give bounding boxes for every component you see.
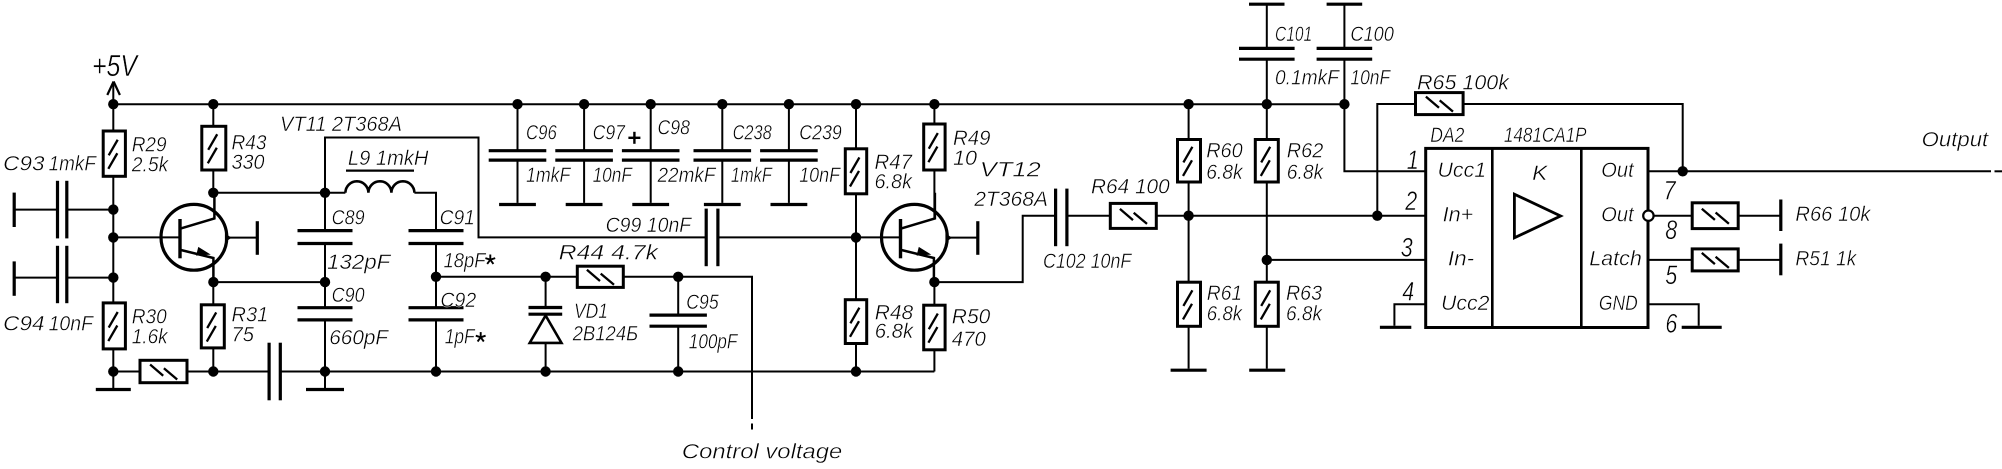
svg-text:75: 75 <box>232 322 255 346</box>
capacitor series bypass <box>268 343 271 401</box>
node R48 bottom <box>851 366 861 376</box>
node rail R60 <box>1183 99 1193 109</box>
svg-text:6.8k: 6.8k <box>1206 160 1244 184</box>
resistor R29 <box>103 131 125 176</box>
wire base VT11 <box>112 210 114 238</box>
node emitter VT11 <box>208 277 218 287</box>
svg-text:1481CA1P: 1481CA1P <box>1504 123 1587 147</box>
svg-text:R65 100k: R65 100k <box>1417 71 1510 95</box>
svg-text:0.1mkF: 0.1mkF <box>1275 65 1341 89</box>
svg-text:6.8k: 6.8k <box>1207 302 1243 326</box>
node rail C238 <box>717 99 727 109</box>
svg-text:132pF: 132pF <box>327 250 392 274</box>
svg-text:VD1: VD1 <box>574 299 608 323</box>
transistor VT12 <box>882 204 948 270</box>
node C92 bottom <box>431 366 441 376</box>
ground C90 <box>324 372 326 390</box>
node ground rail left <box>320 366 330 376</box>
svg-text:2В124Б: 2В124Б <box>572 322 638 346</box>
svg-text:1.6k: 1.6k <box>132 325 169 349</box>
svg-text:DA2: DA2 <box>1430 123 1464 147</box>
svg-text:1mkF: 1mkF <box>731 163 773 187</box>
resistor R66 <box>1692 203 1738 229</box>
resistor R51 <box>1692 249 1738 271</box>
svg-text:4: 4 <box>1402 277 1414 307</box>
node rail C98 <box>646 99 656 109</box>
wire bridge to C99 <box>325 138 706 238</box>
node R30 bottom <box>108 366 118 376</box>
svg-text:Ucc2: Ucc2 <box>1441 291 1490 315</box>
svg-text:330: 330 <box>232 150 265 174</box>
svg-text:6: 6 <box>1665 309 1678 339</box>
resistor R64 <box>1110 203 1156 228</box>
svg-text:6.8k: 6.8k <box>1286 302 1323 326</box>
wire C91 node to R44 <box>436 276 577 278</box>
wire R30 top <box>112 237 114 303</box>
wire +5V rail <box>113 103 1344 105</box>
svg-text:6.8k: 6.8k <box>875 319 915 343</box>
svg-text:R44 4.7k: R44 4.7k <box>559 241 660 265</box>
svg-text:7: 7 <box>1664 176 1677 206</box>
wire emitter to C102 <box>934 216 1055 282</box>
capacitor C92 <box>435 277 437 308</box>
svg-text:Out: Out <box>1601 202 1634 226</box>
capacitor C93 <box>13 193 16 227</box>
transistor VT11 <box>161 204 227 270</box>
wire base VT12 <box>856 236 901 238</box>
label C98 polarity plus <box>628 137 640 139</box>
svg-text:2T368A: 2T368A <box>973 187 1048 211</box>
node In+ R60 <box>1183 211 1193 221</box>
svg-text:22mkF: 22mkF <box>657 163 718 187</box>
node C95 top <box>673 272 683 282</box>
svg-text:L9 1mkH: L9 1mkH <box>348 146 429 170</box>
node rail C97 <box>579 99 589 109</box>
capacitor C101 <box>1249 3 1285 6</box>
svg-text:18pF: 18pF <box>444 249 488 273</box>
wire In+ line <box>1156 215 1425 217</box>
svg-text:C95: C95 <box>686 290 719 314</box>
svg-text:C89: C89 <box>332 206 365 230</box>
node VD1 top <box>540 272 550 282</box>
wire R44 to control <box>623 277 752 419</box>
resistor R62 <box>1255 140 1278 183</box>
wire output dash <box>1995 170 2002 172</box>
node rail C100 <box>1339 99 1349 109</box>
svg-text:470: 470 <box>952 327 986 351</box>
pin 8 inversion bubble <box>1643 211 1653 221</box>
svg-text:Latch: Latch <box>1589 247 1642 271</box>
svg-text:Ucc1: Ucc1 <box>1438 158 1487 182</box>
svg-text:1: 1 <box>1407 145 1419 175</box>
resistor R44 <box>577 266 623 287</box>
resistor R30 <box>103 303 125 349</box>
node R31 bottom <box>208 366 218 376</box>
node rail R49 <box>929 99 939 109</box>
ground C97 <box>566 203 603 206</box>
node L9 left <box>320 188 330 198</box>
wire control dash <box>751 424 753 430</box>
svg-text:C238: C238 <box>733 121 772 145</box>
wire collector row <box>213 192 345 194</box>
svg-text:VT12: VT12 <box>980 158 1041 182</box>
svg-text:8: 8 <box>1665 215 1677 245</box>
node collector VT11 <box>208 188 218 198</box>
wire In- line <box>1267 259 1426 261</box>
svg-text:10nF: 10nF <box>49 312 95 336</box>
ground C238 <box>704 203 741 206</box>
svg-text:1mkF: 1mkF <box>49 151 98 175</box>
capacitor C102 <box>1054 189 1057 247</box>
node +5V rail at R29 <box>108 99 118 109</box>
svg-text:C98: C98 <box>658 115 690 139</box>
resistor R32 bypass <box>140 360 187 382</box>
capacitor C94 <box>13 261 16 295</box>
svg-text:2: 2 <box>1405 186 1418 216</box>
svg-text:100pF: 100pF <box>689 329 739 353</box>
svg-text:C97: C97 <box>593 121 626 145</box>
resistor R63 <box>1255 282 1278 326</box>
wire pin 8 <box>1654 215 1693 217</box>
svg-text:1mkF: 1mkF <box>526 163 572 187</box>
node base VT12 <box>851 232 861 242</box>
svg-text:10nF: 10nF <box>799 163 841 187</box>
svg-text:K: K <box>1532 161 1549 185</box>
capacitor C97 <box>583 104 585 151</box>
svg-text:In-: In- <box>1448 247 1474 271</box>
svg-text:R51 1k: R51 1k <box>1795 246 1857 270</box>
svg-text:GND: GND <box>1599 291 1638 315</box>
ground pin 4 <box>1380 326 1411 329</box>
terminal R66 <box>1779 200 1782 232</box>
diode VD1 varicap <box>545 277 547 308</box>
node VD1 bottom <box>540 366 550 376</box>
node In+ R65 <box>1372 211 1382 221</box>
ground pin 6 <box>1682 326 1722 329</box>
svg-text:C102 10nF: C102 10nF <box>1043 249 1133 273</box>
capacitor C99 <box>705 209 708 267</box>
ground C239 <box>771 203 808 206</box>
svg-text:C100: C100 <box>1350 22 1394 46</box>
svg-text:Out: Out <box>1601 158 1634 182</box>
svg-text:C90: C90 <box>332 283 365 307</box>
node output <box>1678 166 1688 176</box>
svg-text:C91: C91 <box>440 206 475 230</box>
resistor R49 <box>924 124 945 170</box>
svg-text:2.5k: 2.5k <box>131 153 170 177</box>
wire bottom left <box>113 371 140 373</box>
svg-text:C99 10nF: C99 10nF <box>606 213 693 237</box>
node C95 bottom <box>673 366 683 376</box>
inductor L9 <box>345 181 414 192</box>
svg-text:5: 5 <box>1665 260 1678 290</box>
svg-text:10nF: 10nF <box>1350 65 1391 89</box>
capacitor C95 <box>677 277 679 315</box>
resistor R60 <box>1178 140 1201 183</box>
ground R61 <box>1171 369 1207 372</box>
wire Ucc2 pin 4 <box>1394 304 1425 326</box>
node base VT11 <box>108 232 118 242</box>
svg-text:C239: C239 <box>799 121 842 145</box>
svg-text:+5V: +5V <box>92 48 140 83</box>
node rail R47 <box>851 99 861 109</box>
svg-text:Output: Output <box>1922 128 1990 152</box>
wire Ucc1 pin 1 <box>1344 104 1425 171</box>
ground left <box>112 372 114 390</box>
svg-text:1pF: 1pF <box>445 325 476 349</box>
ground C96 <box>499 203 536 206</box>
wire emitter to C90 node <box>213 281 325 283</box>
resistor R47 <box>845 149 866 194</box>
svg-text:10: 10 <box>953 146 977 170</box>
svg-text:C101: C101 <box>1275 22 1312 46</box>
svg-text:R50: R50 <box>952 305 991 329</box>
svg-text:6.8k: 6.8k <box>1287 160 1325 184</box>
svg-text:C94: C94 <box>3 312 44 336</box>
capacitor C96 <box>517 104 519 151</box>
terminal R51 <box>1779 244 1782 276</box>
resistor R61 <box>1178 282 1201 326</box>
wire to series capacitor <box>213 371 269 373</box>
node +5V rail at R43 <box>208 99 218 109</box>
ground C98 <box>632 203 669 206</box>
wire to R31 node <box>187 371 213 373</box>
wire GND pin 6 <box>1648 304 1699 326</box>
svg-text:In+: In+ <box>1443 202 1474 226</box>
svg-text:6.8k: 6.8k <box>875 170 914 194</box>
capacitor C91 <box>409 229 464 232</box>
node C94 <box>108 272 118 282</box>
svg-text:R64 100: R64 100 <box>1091 175 1170 199</box>
node rail R62 <box>1262 99 1272 109</box>
wire Out pin 7 <box>1648 170 1991 172</box>
node rail C96 <box>512 99 522 109</box>
node rail C239 <box>784 99 794 109</box>
wire pin 5 <box>1648 259 1692 261</box>
resistor R50 <box>924 305 945 350</box>
op-amp U1 comparator DA2 1481CA1P <box>1426 148 1648 327</box>
wire ground rail <box>325 371 934 373</box>
svg-text:C96: C96 <box>526 121 557 145</box>
svg-text:3: 3 <box>1401 232 1413 262</box>
capacitor C239 <box>788 104 790 151</box>
wire R65 to output node <box>1463 104 1683 171</box>
resistor R48 <box>845 300 866 344</box>
svg-text:R66 10k: R66 10k <box>1795 202 1871 226</box>
svg-text:10nF: 10nF <box>593 163 634 187</box>
capacitor C238 <box>721 104 723 151</box>
capacitor C89 <box>324 193 326 231</box>
resistor R31 <box>201 305 224 348</box>
wire series capacitor to ground node <box>280 371 325 373</box>
resistor R43 <box>202 126 226 170</box>
node emitter VT12 <box>929 277 939 287</box>
capacitor C98 <box>650 104 652 151</box>
node C93 <box>108 204 118 214</box>
node In- R63 <box>1262 255 1272 265</box>
svg-text:Control voltage: Control voltage <box>682 440 842 464</box>
resistor R65 <box>1377 104 1415 216</box>
svg-text:660pF: 660pF <box>329 325 389 349</box>
capacitor C90 <box>324 282 326 308</box>
svg-text:C93: C93 <box>3 151 44 175</box>
ground R63 <box>1249 369 1285 372</box>
capacitor C100 <box>1327 3 1363 6</box>
svg-text:VT11 2T368A: VT11 2T368A <box>280 112 402 136</box>
svg-text:C92: C92 <box>440 288 476 312</box>
node C91 C92 <box>431 272 441 282</box>
node C89 C90 <box>320 277 330 287</box>
